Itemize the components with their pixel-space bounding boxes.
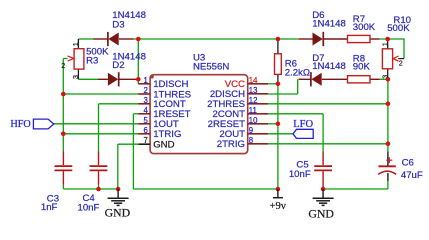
svg-text:3: 3 <box>71 75 80 79</box>
svg-text:9: 9 <box>249 126 253 135</box>
svg-text:5: 5 <box>144 116 149 125</box>
svg-text:D3: D3 <box>112 20 124 31</box>
svg-text:2: 2 <box>144 86 148 95</box>
svg-text:GND: GND <box>153 140 174 151</box>
svg-text:7: 7 <box>144 136 148 145</box>
svg-text:47uF: 47uF <box>401 170 423 181</box>
svg-text:1N4148: 1N4148 <box>312 19 346 30</box>
svg-text:4: 4 <box>144 106 149 115</box>
svg-text:C6: C6 <box>402 158 414 169</box>
svg-text:13: 13 <box>249 86 258 95</box>
svg-text:HFO: HFO <box>10 119 30 130</box>
svg-text:D2: D2 <box>112 60 124 71</box>
svg-text:500K: 500K <box>387 23 410 34</box>
svg-text:NE556N: NE556N <box>193 61 229 72</box>
svg-text:3: 3 <box>144 96 148 105</box>
svg-text:10: 10 <box>249 116 258 125</box>
svg-text:GND: GND <box>308 207 334 221</box>
svg-text:2.2kΩ: 2.2kΩ <box>285 67 310 78</box>
svg-text:14: 14 <box>249 76 258 85</box>
svg-text:1TRIG: 1TRIG <box>153 129 181 140</box>
svg-text:1N4148: 1N4148 <box>312 61 346 72</box>
svg-text:12: 12 <box>249 96 258 105</box>
svg-text:10nF: 10nF <box>78 203 100 214</box>
svg-text:R3: R3 <box>86 55 98 66</box>
svg-text:8: 8 <box>249 136 253 145</box>
svg-text:2: 2 <box>399 59 403 68</box>
svg-text:GND: GND <box>105 206 131 220</box>
svg-text:+9v: +9v <box>270 201 287 212</box>
svg-text:11: 11 <box>249 106 257 115</box>
svg-text:1: 1 <box>144 76 148 85</box>
svg-text:1: 1 <box>71 42 80 46</box>
svg-text:3: 3 <box>381 75 390 79</box>
svg-text:2: 2 <box>61 61 65 70</box>
svg-text:1nF: 1nF <box>41 202 58 213</box>
svg-text:1: 1 <box>381 42 390 46</box>
svg-text:300K: 300K <box>353 22 376 33</box>
svg-text:10nF: 10nF <box>289 169 311 180</box>
svg-text:LFO: LFO <box>293 119 313 130</box>
svg-text:2TRIG: 2TRIG <box>217 139 245 150</box>
svg-text:6: 6 <box>144 126 148 135</box>
svg-text:90K: 90K <box>353 62 371 73</box>
